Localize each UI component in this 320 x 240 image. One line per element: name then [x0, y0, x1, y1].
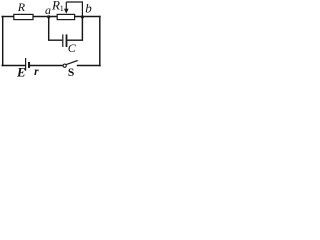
wire top left segment [2, 16, 14, 18]
svg-text:S: S [68, 67, 74, 77]
svg-text:a: a [45, 3, 51, 17]
wire switch to bottom-right corner [78, 65, 101, 67]
svg-text:1: 1 [60, 4, 64, 13]
rheostat slider arrow [64, 2, 69, 14]
wire slider bypass to b [66, 2, 82, 17]
battery E with internal resistance r [16, 58, 39, 79]
svg-text:b: b [85, 0, 92, 15]
wire capacitor branch right riser [67, 17, 82, 41]
wire battery to switch [30, 65, 64, 67]
capacitor C [63, 34, 77, 55]
wire left border [2, 17, 4, 66]
wire segment R to R1 [33, 16, 57, 18]
node a [45, 3, 51, 18]
rheostat R1 [51, 0, 75, 20]
wire segment R1 to top-right corner [75, 16, 100, 18]
svg-text:R: R [51, 0, 60, 12]
wire bottom left segment [2, 65, 25, 67]
wire capacitor branch left drop [49, 17, 63, 40]
resistor R [14, 0, 33, 20]
node b [81, 0, 93, 18]
switch S [63, 61, 78, 79]
svg-text:E: E [16, 64, 26, 77]
wire right border [99, 17, 101, 66]
svg-text:R: R [17, 0, 26, 14]
svg-text:r: r [34, 66, 39, 77]
svg-text:C: C [68, 41, 77, 55]
